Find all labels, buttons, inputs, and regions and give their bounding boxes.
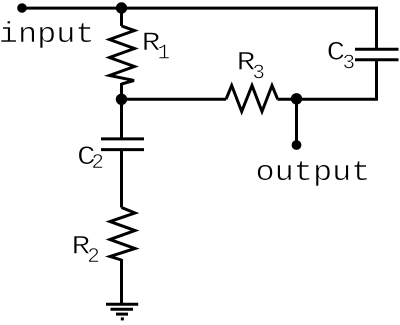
wire output node to C3 branch <box>297 98 379 101</box>
wire R1 top lead <box>120 8 123 26</box>
ground tick <box>121 317 124 320</box>
wire output stub <box>295 99 298 145</box>
svg-text:3: 3 <box>343 53 356 76</box>
wire R1 bottom lead <box>120 83 123 99</box>
resistor R3 <box>226 86 278 112</box>
svg-text:input: input <box>0 19 95 51</box>
label R3 <box>237 47 265 85</box>
resistor R2 <box>110 208 135 261</box>
capacitor C2 bottom plate <box>101 148 144 151</box>
capacitor C3 top plate <box>355 48 399 51</box>
label C3 <box>327 37 356 75</box>
node junction R1/C2/R3 <box>116 94 127 105</box>
svg-text:output: output <box>256 157 371 189</box>
svg-text:3: 3 <box>252 63 265 86</box>
ground bar 1 <box>106 303 138 306</box>
svg-text:1: 1 <box>158 42 171 65</box>
svg-text:2: 2 <box>91 152 104 175</box>
capacitor C3 bottom plate <box>355 58 399 61</box>
wire middle horizontal junction to R3 <box>122 98 227 101</box>
resistor R1 <box>110 26 135 84</box>
node input dot <box>17 3 27 13</box>
node output junction <box>291 93 302 104</box>
wire C2 to R2 <box>120 150 123 208</box>
node junction R1 top <box>116 2 127 13</box>
wire C2 top lead <box>120 99 123 139</box>
capacitor C2 top plate <box>101 137 144 140</box>
node output terminal dot <box>292 140 302 150</box>
label R1 <box>142 28 171 66</box>
svg-text:2: 2 <box>87 246 100 269</box>
wire C3 bottom lead <box>375 60 378 101</box>
wire R2 to ground <box>120 259 123 305</box>
label C2 <box>77 142 104 175</box>
wire C3 top lead <box>375 8 378 49</box>
ground bar 3 <box>116 313 128 316</box>
label R2 <box>72 231 100 269</box>
ground bar 2 <box>111 308 134 311</box>
wire top horizontal from input to C3 branch <box>21 7 378 10</box>
wire R3 to output node <box>278 98 297 101</box>
